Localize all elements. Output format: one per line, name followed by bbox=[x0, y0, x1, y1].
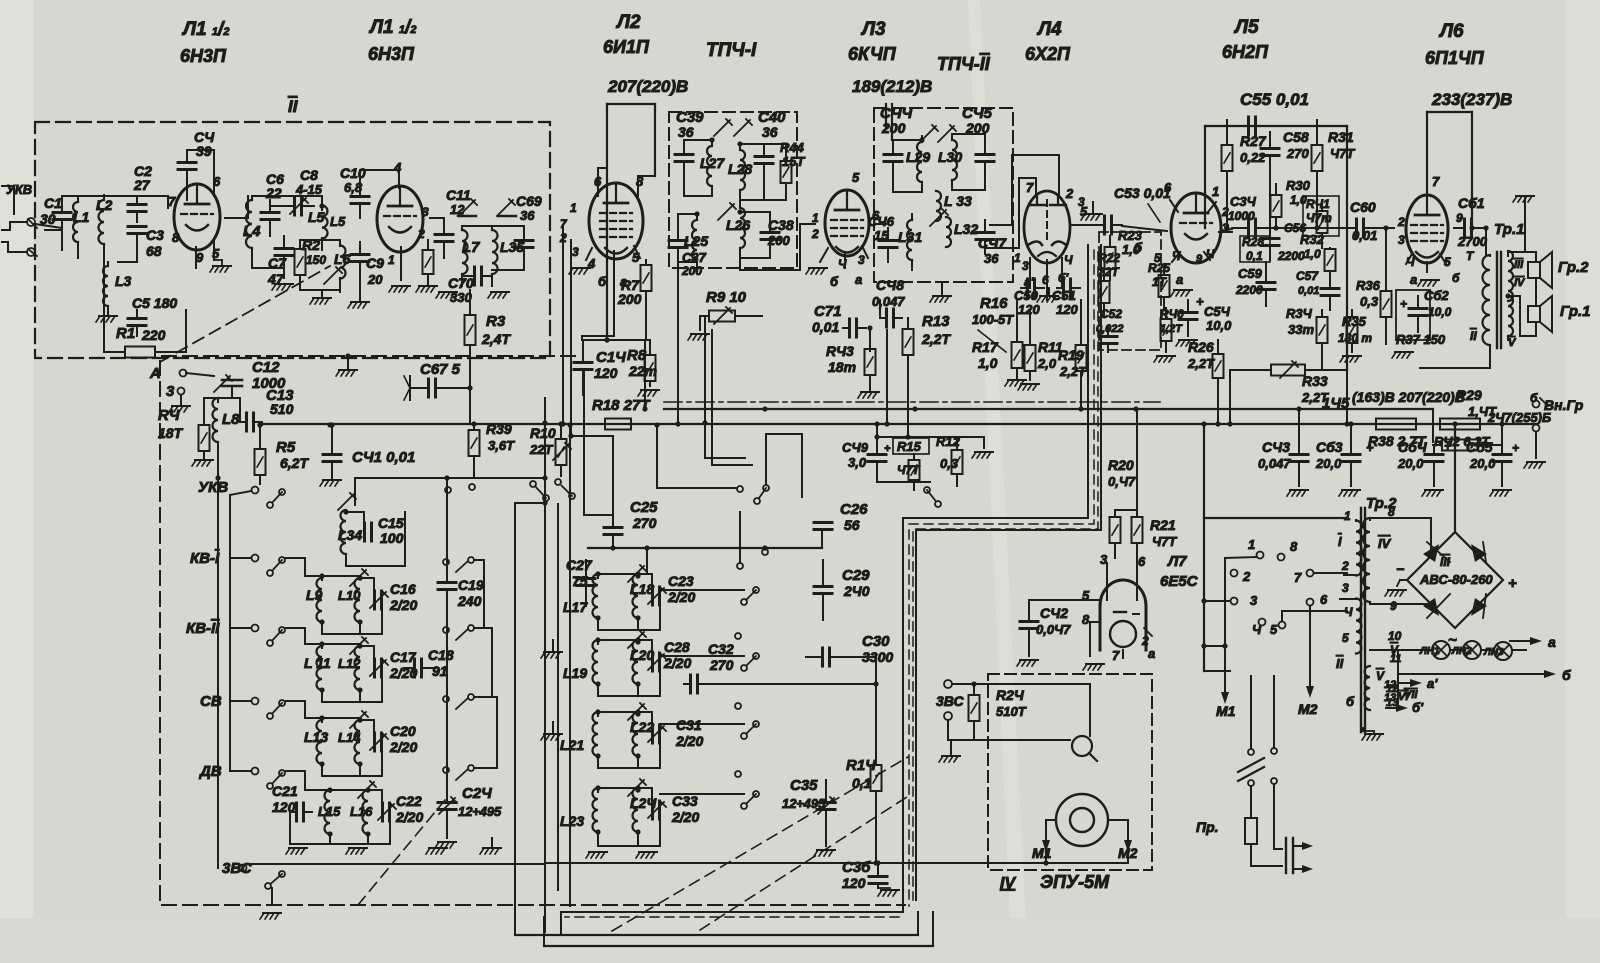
svg-text:R13: R13 bbox=[922, 313, 950, 330]
svg-text:R15: R15 bbox=[897, 439, 922, 454]
svg-text:Л3: Л3 bbox=[860, 19, 886, 40]
svg-text:Л2: Л2 bbox=[615, 12, 641, 33]
wire C3 down bbox=[136, 252, 138, 262]
wire y863 long bbox=[545, 862, 1128, 864]
svg-text:120: 120 bbox=[1056, 302, 1078, 317]
svg-text:2,2Т: 2,2Т bbox=[1187, 356, 1215, 371]
svg-text:С71: С71 bbox=[814, 303, 842, 320]
tube L6 pins bbox=[1426, 262, 1428, 272]
wires L23 L24 bbox=[598, 787, 638, 789]
ground ZVS bbox=[939, 756, 960, 762]
svg-text:С22: С22 bbox=[396, 793, 422, 809]
wire L5 plate to C34 bbox=[1219, 229, 1232, 232]
wire ZVS to pickup bbox=[952, 683, 1090, 685]
svg-text:233(237)В: 233(237)В bbox=[1431, 90, 1512, 109]
svg-text:R44: R44 bbox=[780, 140, 805, 155]
svg-text:Гр.1: Гр.1 bbox=[1560, 303, 1591, 320]
tube L5 pins bbox=[1170, 200, 1178, 212]
capacitor C55 bbox=[1249, 117, 1256, 135]
wire KV-II row bbox=[286, 628, 322, 644]
ground C9 bbox=[348, 302, 369, 308]
panel M2 drop bbox=[1306, 686, 1314, 698]
svg-text:2/20: 2/20 bbox=[675, 733, 703, 749]
wire C19 column bbox=[446, 610, 448, 780]
svg-text:3ВС: 3ВС bbox=[222, 860, 253, 877]
pentode tube L2 bbox=[589, 183, 643, 259]
svg-text:2/20: 2/20 bbox=[671, 809, 699, 825]
svg-text:Л6: Л6 bbox=[1438, 21, 1464, 42]
svg-text:0,1: 0,1 bbox=[852, 775, 872, 791]
svg-text:L21: L21 bbox=[560, 737, 584, 753]
ground R12 bbox=[972, 452, 993, 458]
svg-text:22Т: 22Т bbox=[1097, 265, 1120, 279]
svg-text:7: 7 bbox=[1294, 570, 1302, 585]
svg-text:2,4Т: 2,4Т bbox=[481, 331, 511, 347]
svg-text:R21: R21 bbox=[1150, 517, 1176, 533]
svg-text:С11: С11 bbox=[446, 187, 471, 203]
wire x705 drop bbox=[704, 316, 706, 458]
svg-text:Л5: Л5 bbox=[1233, 17, 1259, 38]
svg-text:б: б bbox=[1452, 271, 1460, 285]
wire L35 top bbox=[462, 225, 524, 227]
wire input to C1 bbox=[45, 229, 62, 231]
svg-text:СбЧ: СбЧ bbox=[1398, 439, 1428, 455]
svg-text:120: 120 bbox=[842, 875, 866, 891]
terminal Vn.Gr a bbox=[1533, 401, 1540, 408]
svg-text:1000: 1000 bbox=[1228, 209, 1255, 223]
svg-text:22Т: 22Т bbox=[529, 442, 553, 457]
svg-text:7: 7 bbox=[1432, 174, 1440, 189]
svg-text:С60: С60 bbox=[1350, 199, 1376, 215]
wire DV row bbox=[286, 771, 330, 790]
svg-text:1,0: 1,0 bbox=[1290, 193, 1307, 207]
svg-text:С3Ч: С3Ч bbox=[1230, 194, 1257, 209]
svg-text:+: + bbox=[1366, 440, 1374, 455]
svg-text:2/20: 2/20 bbox=[667, 589, 695, 605]
svg-text:2: 2 bbox=[811, 227, 819, 241]
svg-text:10,0: 10,0 bbox=[1206, 318, 1232, 333]
wire L7 C70 bbox=[461, 274, 463, 276]
resistor R29 body bbox=[1442, 440, 1478, 451]
svg-text:7: 7 bbox=[1112, 648, 1120, 663]
svg-text:L 33: L 33 bbox=[944, 193, 972, 209]
svg-text:2Ч7(255)Б: 2Ч7(255)Б bbox=[1487, 410, 1551, 425]
ground L35 bbox=[488, 292, 509, 298]
svg-text:R39: R39 bbox=[486, 421, 512, 437]
svg-text:2/20: 2/20 bbox=[663, 655, 691, 671]
wires L21 L22 bbox=[598, 711, 638, 713]
svg-text:Ч7Т: Ч7Т bbox=[1330, 146, 1355, 161]
svg-text:VI: VI bbox=[1398, 691, 1409, 703]
svg-text:+: + bbox=[1400, 297, 1407, 311]
svg-text:10: 10 bbox=[1388, 629, 1402, 643]
wire x545 vertical bbox=[544, 398, 546, 932]
Tr2 core bbox=[1360, 508, 1362, 732]
svg-text:1Ч5: 1Ч5 bbox=[1322, 395, 1350, 412]
svg-text:С29: С29 bbox=[842, 567, 870, 584]
svg-text:0,01: 0,01 bbox=[812, 319, 839, 335]
IF-I dashed box bbox=[669, 112, 797, 268]
wire x740 col bbox=[739, 512, 741, 563]
wire L1L2 top bbox=[62, 195, 104, 197]
wire Tr2 to lamp bus bbox=[1370, 649, 1398, 651]
svg-text:2Ч0: 2Ч0 bbox=[843, 583, 870, 599]
svg-text:2: 2 bbox=[1065, 186, 1074, 201]
svg-text:С1: С1 bbox=[44, 195, 62, 211]
divider diagonal bottom left bbox=[358, 800, 445, 905]
section box II bbox=[35, 122, 550, 358]
svg-text:3: 3 bbox=[1078, 195, 1085, 209]
wire x558 lower vertical bbox=[557, 504, 559, 890]
pentode tube L3 bbox=[825, 190, 869, 256]
svg-text:2/20: 2/20 bbox=[395, 809, 423, 825]
ground L2 cathode bbox=[569, 268, 590, 274]
svg-text:СЧ8: СЧ8 bbox=[876, 277, 904, 293]
svg-text:120: 120 bbox=[594, 365, 618, 381]
svg-text:IV: IV bbox=[1514, 277, 1526, 289]
svg-text:240: 240 bbox=[457, 593, 482, 609]
shield bus dashed pair bbox=[909, 250, 1094, 906]
wire mid links r3 bbox=[660, 723, 744, 725]
mains plug bbox=[1273, 785, 1275, 849]
svg-text:91: 91 bbox=[432, 663, 448, 679]
ground box II mid bbox=[336, 370, 357, 376]
vertical band bus x230 bbox=[229, 495, 231, 771]
svg-text:А: А bbox=[149, 365, 161, 382]
bus wire y409 bbox=[664, 408, 1433, 410]
terminal ZVS lower bbox=[944, 712, 952, 720]
svg-text:ЭПУ-5М: ЭПУ-5М bbox=[1040, 872, 1110, 892]
shield bus vertical right bbox=[561, 245, 1088, 935]
resistor plate load L1b bbox=[423, 250, 434, 274]
bridge diode 4 bbox=[1471, 598, 1487, 616]
svg-text:С16: С16 bbox=[390, 581, 416, 597]
Tr1 top link bbox=[1507, 252, 1509, 256]
svg-text:189(212)В: 189(212)В bbox=[852, 77, 932, 96]
double triode tube L5 bbox=[1171, 193, 1221, 263]
svg-text:2/20: 2/20 bbox=[389, 739, 417, 755]
wire grid to tube1 bbox=[137, 196, 168, 208]
tuner dashed box bbox=[160, 356, 905, 905]
wire x563 AGC vertical bbox=[562, 226, 564, 423]
svg-text:R1: R1 bbox=[116, 325, 135, 342]
svg-text:б: б bbox=[1134, 240, 1143, 255]
pickup head bbox=[1072, 736, 1092, 756]
band switch KV-II bbox=[230, 627, 251, 629]
svg-text:150: 150 bbox=[306, 253, 326, 267]
svg-text:27: 27 bbox=[133, 177, 151, 193]
IF-I trimmer marks bbox=[714, 119, 732, 136]
bridge diode 2 bbox=[1471, 544, 1487, 562]
pentode tube L6 bbox=[1406, 195, 1448, 263]
wires L17 L18 bbox=[598, 573, 638, 575]
svg-text:АВС-80-260: АВС-80-260 bbox=[1419, 572, 1493, 587]
svg-text:18т: 18т bbox=[828, 359, 856, 375]
svg-text:−: − bbox=[1396, 561, 1404, 577]
svg-text:L26: L26 bbox=[726, 217, 750, 233]
svg-text:а: а bbox=[1176, 272, 1183, 287]
svg-text:Сб1: Сб1 bbox=[1458, 195, 1485, 211]
svg-text:100: 100 bbox=[380, 530, 404, 546]
svg-text:9: 9 bbox=[1390, 599, 1397, 613]
section dash-dot line y402 bbox=[664, 401, 1160, 403]
ground R9 bbox=[688, 334, 709, 340]
svg-text:С57: С57 bbox=[1296, 269, 1319, 283]
svg-text:а: а bbox=[1148, 646, 1155, 661]
svg-text:IV: IV bbox=[1378, 536, 1392, 551]
transformer Tr1 primary bbox=[1483, 255, 1491, 345]
wire to tube L1b bbox=[360, 170, 399, 188]
svg-text:6Н3П: 6Н3П bbox=[180, 46, 227, 66]
ground Vn.Gr bbox=[1524, 462, 1545, 468]
wire IF1 to L3 grid bbox=[740, 224, 815, 270]
svg-text:II: II bbox=[1470, 329, 1477, 343]
main bus wire y424 bbox=[262, 423, 1536, 425]
resistor R15 47T bbox=[893, 438, 929, 454]
speaker Gr1 bbox=[1528, 306, 1540, 322]
svg-text:2: 2 bbox=[559, 231, 567, 245]
speaker wiring bbox=[1535, 252, 1537, 262]
svg-text:Вн.Гр: Вн.Гр bbox=[1544, 397, 1584, 413]
svg-text:R31: R31 bbox=[1328, 129, 1354, 145]
svg-text:а: а bbox=[855, 272, 862, 287]
input jack upper bbox=[27, 218, 35, 226]
svg-text:2200: 2200 bbox=[1277, 249, 1305, 263]
wire L2 pins up bbox=[597, 168, 599, 189]
wire x570 lower vertical bbox=[569, 425, 571, 906]
svg-text:270: 270 bbox=[632, 515, 657, 531]
svg-text:56: 56 bbox=[844, 517, 860, 533]
variable cap gang 2 bbox=[497, 199, 515, 216]
mains switch bbox=[1250, 676, 1252, 748]
svg-text:+: + bbox=[884, 443, 891, 455]
svg-text:200: 200 bbox=[617, 291, 642, 307]
Tr2 primary I bbox=[1356, 521, 1362, 576]
resistor R18 bbox=[605, 419, 631, 430]
svg-text:2700: 2700 bbox=[1457, 234, 1488, 249]
svg-text:Ч: Ч bbox=[1064, 253, 1073, 267]
input jack lower bbox=[27, 248, 35, 256]
svg-text:С58: С58 bbox=[1283, 129, 1309, 145]
svg-text:L19: L19 bbox=[563, 665, 587, 681]
svg-text:10,0: 10,0 bbox=[1428, 305, 1452, 319]
wire x571 AGC vertical bbox=[570, 240, 572, 436]
magic eye tube L7 bbox=[1100, 580, 1146, 650]
band switch SV bbox=[230, 700, 251, 702]
svg-text:ТПЧ-I: ТПЧ-I bbox=[706, 40, 757, 61]
svg-text:С2Ч: С2Ч bbox=[462, 785, 492, 802]
svg-text:R17: R17 bbox=[972, 339, 999, 355]
node wire L1a plate right bbox=[247, 196, 249, 218]
arrow b output bbox=[1398, 673, 1548, 675]
divider diagonal in box II bbox=[160, 266, 330, 362]
svg-text:7: 7 bbox=[1026, 180, 1034, 195]
svg-text:1: 1 bbox=[812, 211, 819, 225]
lamp bus bbox=[1398, 649, 1432, 651]
svg-text:22т: 22т bbox=[628, 363, 657, 379]
svg-text:8: 8 bbox=[1388, 505, 1395, 519]
switch panel top wire bbox=[1204, 517, 1347, 519]
svg-text:СЧ9: СЧ9 bbox=[842, 440, 869, 455]
wire C34 to C60 bbox=[1256, 227, 1340, 229]
svg-text:8: 8 bbox=[172, 230, 180, 245]
svg-text:С32: С32 bbox=[708, 641, 734, 657]
motor M bbox=[1056, 794, 1108, 846]
wire R33 drop bbox=[1229, 370, 1231, 424]
svg-text:ТПЧ-II: ТПЧ-II bbox=[937, 54, 991, 74]
svg-text:1: 1 bbox=[1014, 251, 1021, 265]
svg-text:С3: С3 bbox=[146, 227, 164, 243]
svg-text:С19: С19 bbox=[458, 577, 484, 593]
ground L5 grid area bbox=[1081, 214, 1102, 220]
bridge diode 1 bbox=[1423, 544, 1439, 562]
IF-II trimmers bbox=[920, 125, 938, 142]
svg-text:36: 36 bbox=[984, 251, 999, 266]
band switch 3VS bbox=[265, 871, 285, 889]
wire osc top bbox=[355, 477, 448, 479]
svg-text:Гр.2: Гр.2 bbox=[1558, 259, 1589, 276]
svg-text:3: 3 bbox=[1398, 233, 1405, 247]
svg-text:С5 180: С5 180 bbox=[132, 295, 177, 311]
svg-text:3ВС: 3ВС bbox=[936, 693, 965, 709]
svg-text:а: а bbox=[1410, 272, 1417, 287]
svg-text:УКВ: УКВ bbox=[198, 479, 228, 496]
wire switch up loop bbox=[766, 434, 802, 497]
svg-text:1: 1 bbox=[1344, 509, 1351, 523]
svg-text:R26: R26 bbox=[1188, 339, 1214, 355]
svg-text:2: 2 bbox=[1242, 569, 1251, 584]
svg-text:20,0: 20,0 bbox=[1469, 456, 1496, 471]
svg-text:200: 200 bbox=[681, 264, 702, 278]
Tr2 bottom ground bbox=[1362, 734, 1383, 740]
svg-text:R20: R20 bbox=[1108, 457, 1134, 473]
Tr2 taps left bbox=[1344, 574, 1356, 576]
svg-text:II: II bbox=[1336, 656, 1344, 671]
tube L3 pin wires bbox=[844, 254, 846, 268]
svg-text:R3Ч: R3Ч bbox=[1286, 306, 1313, 321]
svg-text:М1: М1 bbox=[1216, 703, 1236, 719]
ground L1b cathode bbox=[389, 286, 410, 292]
svg-text:М1: М1 bbox=[1032, 845, 1052, 861]
svg-text:L6: L6 bbox=[334, 251, 351, 267]
svg-text:б′: б′ bbox=[1412, 700, 1424, 715]
svg-text:6: 6 bbox=[1164, 180, 1172, 195]
svg-text:4-15: 4-15 bbox=[295, 182, 323, 197]
speaker Gr2 bbox=[1528, 262, 1540, 278]
svg-text:R9 10: R9 10 bbox=[706, 289, 747, 306]
svg-text:1,0: 1,0 bbox=[1304, 247, 1321, 261]
variable cap gang 1 bbox=[459, 199, 477, 216]
svg-text:Л4: Л4 bbox=[1036, 19, 1062, 40]
svg-text:6Х2П: 6Х2П bbox=[1025, 44, 1071, 64]
wire mid links r4 bbox=[660, 793, 744, 795]
Tr2 primary lower bbox=[1356, 599, 1362, 654]
motor M1 lead bbox=[1046, 820, 1056, 863]
svg-text:20,0: 20,0 bbox=[1315, 456, 1342, 471]
junction on bus bbox=[762, 406, 767, 411]
svg-text:С5Ч: С5Ч bbox=[1204, 304, 1231, 319]
ground between C50 C51 bbox=[1037, 296, 1058, 302]
svg-text:RЧ3: RЧ3 bbox=[826, 343, 854, 359]
wires R15 cluster bbox=[877, 436, 984, 438]
power rail drop 233V bbox=[1426, 112, 1428, 195]
terminal Vn.Gr b bbox=[1533, 425, 1540, 432]
wire x584 vertical bbox=[583, 370, 585, 515]
svg-text:7: 7 bbox=[168, 194, 176, 209]
svg-text:С12: С12 bbox=[252, 359, 280, 376]
svg-text:R27: R27 bbox=[1240, 133, 1267, 149]
svg-text:9: 9 bbox=[196, 250, 204, 265]
svg-text:С3б: С3б bbox=[842, 859, 871, 876]
transformer Tr1 secondary V bbox=[1508, 296, 1513, 336]
wire C53 to L5 grid bbox=[1122, 226, 1167, 231]
svg-text:RЧ: RЧ bbox=[158, 407, 180, 424]
wires L13 L14 join bbox=[322, 717, 360, 719]
power rail drop 189V bbox=[885, 104, 887, 128]
svg-text:R22: R22 bbox=[1098, 251, 1120, 265]
svg-text:1,0: 1,0 bbox=[978, 355, 998, 371]
svg-text:0,Ч7: 0,Ч7 bbox=[1108, 474, 1136, 489]
svg-text:М2: М2 bbox=[1298, 701, 1318, 717]
svg-text:6Е5С: 6Е5С bbox=[1160, 573, 1199, 590]
svg-text:L32: L32 bbox=[954, 221, 978, 237]
coil block top wire y548 bbox=[588, 547, 822, 549]
svg-text:9: 9 bbox=[1196, 253, 1203, 265]
resistor R38 2,7T bbox=[1376, 419, 1416, 430]
svg-text:1: 1 bbox=[1248, 537, 1255, 552]
wire C37 col to bus bbox=[677, 262, 679, 424]
svg-text:б: б bbox=[1530, 391, 1538, 405]
svg-text:СЧ6: СЧ6 bbox=[868, 214, 895, 229]
svg-text:С18: С18 bbox=[428, 647, 454, 663]
svg-text:3: 3 bbox=[572, 245, 579, 259]
detector dashed box bbox=[1099, 232, 1161, 350]
svg-text:36: 36 bbox=[520, 208, 535, 223]
triode tube L1b bbox=[377, 186, 423, 252]
C55 top wire bbox=[1205, 125, 1347, 127]
svg-text:С53 0,01: С53 0,01 bbox=[1114, 185, 1171, 201]
svg-text:б: б bbox=[830, 274, 839, 289]
svg-text:8: 8 bbox=[1082, 612, 1090, 627]
wire C32 to R14 col bbox=[710, 683, 876, 685]
svg-text:3: 3 bbox=[858, 253, 865, 267]
svg-text:L27: L27 bbox=[700, 155, 725, 171]
svg-text:6: 6 bbox=[1138, 554, 1146, 569]
svg-text:20,0: 20,0 bbox=[1397, 456, 1424, 471]
arrow a output bbox=[1510, 640, 1534, 642]
svg-text:R28: R28 bbox=[1242, 235, 1264, 249]
svg-text:С1Ч: С1Ч bbox=[596, 349, 626, 366]
svg-text:8: 8 bbox=[1290, 539, 1298, 554]
svg-text:С55 0,01: С55 0,01 bbox=[1240, 90, 1309, 109]
svg-text:Л1 1/2: Л1 1/2 bbox=[181, 19, 229, 40]
svg-text:С28: С28 bbox=[664, 639, 690, 655]
svg-text:R16: R16 bbox=[980, 295, 1008, 312]
svg-text:R36: R36 bbox=[1356, 278, 1381, 293]
wires L9 L10 join bbox=[322, 575, 360, 577]
tube L4 bottom pins bbox=[1029, 258, 1031, 288]
IF-I wiring bbox=[694, 211, 699, 216]
power rail drop 207V bbox=[606, 104, 608, 340]
svg-text:2: 2 bbox=[1341, 559, 1349, 573]
svg-text:2,2Т: 2,2Т bbox=[921, 331, 951, 347]
right switch column band ladder bbox=[443, 559, 449, 565]
wire L8 down bbox=[217, 442, 219, 478]
wire mid links r1 bbox=[660, 589, 744, 591]
motor M2 lead bbox=[1108, 820, 1128, 863]
svg-text:СЧ1 0,01: СЧ1 0,01 bbox=[352, 449, 415, 466]
svg-text:33т: 33т bbox=[1288, 322, 1314, 337]
